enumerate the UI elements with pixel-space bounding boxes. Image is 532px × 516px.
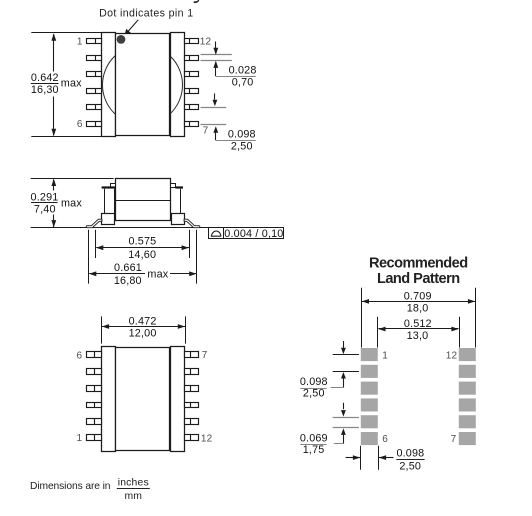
svg-text:6: 6 bbox=[77, 350, 83, 361]
dimension 0.709/18,0 (outer span) bbox=[362, 288, 476, 348]
bottom-view left pin row 6 bbox=[87, 435, 102, 441]
svg-text:mm: mm bbox=[124, 491, 142, 502]
side-view right foot bbox=[172, 214, 185, 225]
side-view right gull-wing lead bbox=[184, 219, 200, 228]
svg-text:6: 6 bbox=[77, 119, 83, 130]
bottom-view left pin row 3 bbox=[87, 386, 102, 392]
bottom-view right pin row 1 bbox=[185, 352, 199, 358]
dimension 0.291/7,40 max (height) bbox=[31, 179, 83, 228]
flatness callout frame bbox=[209, 228, 284, 241]
svg-text:2,50: 2,50 bbox=[399, 461, 421, 473]
svg-text:0,70: 0,70 bbox=[232, 76, 254, 88]
dimension 0.098/2,50 (pad pitch, left) bbox=[300, 341, 359, 400]
land pattern pad labels bbox=[382, 350, 457, 445]
top-view extension line (bottom) bbox=[31, 136, 101, 138]
side-view left post bbox=[105, 189, 115, 214]
top-view left pin row 1 bbox=[87, 39, 102, 44]
bottom-view left pin row 4 bbox=[87, 403, 102, 408]
top-view extension line (top) bbox=[31, 32, 101, 34]
dimension 0.098/2,50 (pin pitch) bbox=[201, 94, 256, 153]
svg-text:13,0: 13,0 bbox=[407, 330, 429, 342]
bottom-view pin labels bbox=[77, 350, 213, 445]
svg-text:12,00: 12,00 bbox=[129, 328, 157, 340]
pin 1 indicator dot bbox=[117, 35, 126, 44]
svg-text:1: 1 bbox=[77, 433, 83, 444]
svg-text:0.028: 0.028 bbox=[229, 64, 257, 76]
svg-text:0.575: 0.575 bbox=[128, 236, 156, 248]
bottom-view right pin row 6 bbox=[185, 435, 199, 441]
bottom-view left pin row 5 bbox=[87, 419, 102, 425]
svg-text:Dimensions are in: Dimensions are in bbox=[30, 481, 111, 492]
bottom-view body bbox=[116, 348, 170, 451]
dimension 0.642/16,30 max (vertical) bbox=[31, 33, 82, 136]
svg-text:7: 7 bbox=[203, 125, 209, 136]
top-view right pin row 2 bbox=[185, 56, 199, 61]
core circle bbox=[103, 45, 183, 125]
bottom-view left flange bbox=[102, 347, 116, 452]
svg-text:0.291: 0.291 bbox=[31, 192, 59, 204]
top-view left pin row 4 bbox=[87, 89, 102, 94]
svg-text:1,75: 1,75 bbox=[303, 444, 325, 456]
top-view body bbox=[116, 34, 170, 136]
bottom-view right pin row 2 bbox=[185, 369, 199, 375]
bottom-view right pin row 4 bbox=[185, 403, 199, 408]
top-view left flange bbox=[102, 33, 116, 137]
top-view right flange bbox=[171, 33, 185, 137]
top-view right pin row 4 bbox=[185, 89, 199, 94]
svg-text:12: 12 bbox=[200, 36, 212, 47]
side-view left cap bar bbox=[102, 186, 116, 188]
svg-text:14,60: 14,60 bbox=[128, 249, 156, 261]
svg-text:7,40: 7,40 bbox=[34, 203, 56, 215]
side-view right post bbox=[171, 189, 181, 214]
dimension 0.098/2,50 (pad width, bottom) bbox=[346, 446, 425, 473]
dimension 0.512/13,0 (inner span) bbox=[378, 317, 460, 348]
svg-text:16,80: 16,80 bbox=[114, 275, 142, 287]
note: Dimensions are in inches/mm bbox=[30, 478, 150, 502]
side-view left foot bbox=[102, 214, 115, 225]
land pattern right pads bbox=[459, 348, 476, 445]
bottom-view right pin row 3 bbox=[185, 386, 199, 392]
svg-text:12: 12 bbox=[201, 434, 213, 445]
top-view right pin row 6 bbox=[185, 122, 199, 127]
svg-text:12: 12 bbox=[446, 351, 458, 362]
svg-text:max: max bbox=[147, 269, 168, 281]
side-view right step bbox=[171, 184, 176, 188]
dimension 0.069/1,75 (pad height, left) bbox=[300, 403, 359, 456]
top-view right pin row 5 bbox=[185, 105, 199, 110]
land pattern left pads bbox=[361, 348, 378, 445]
svg-text:16,30: 16,30 bbox=[31, 84, 59, 96]
top-view left pin row 5 bbox=[87, 105, 102, 110]
partial glyph of cropped title bbox=[194, 0, 200, 3]
svg-text:6: 6 bbox=[382, 434, 388, 445]
top-view left pin row 3 bbox=[87, 72, 102, 77]
svg-text:0.512: 0.512 bbox=[404, 318, 432, 330]
svg-text:1: 1 bbox=[382, 350, 388, 361]
svg-text:18,0: 18,0 bbox=[407, 302, 429, 314]
bottom-view right pin row 5 bbox=[185, 419, 199, 425]
svg-text:7: 7 bbox=[451, 434, 457, 445]
dimension 0.661/16,80 max (lead span) bbox=[89, 230, 197, 287]
bottom-view left pin row 2 bbox=[87, 369, 102, 375]
title: Recommended Land Pattern bbox=[369, 255, 468, 287]
top-view left pin row 2 bbox=[87, 56, 102, 61]
svg-text:0.069: 0.069 bbox=[300, 432, 328, 444]
bottom-view left pin row 1 bbox=[87, 352, 102, 358]
side-view left gull-wing lead bbox=[86, 219, 102, 228]
top-view pin labels bbox=[77, 36, 212, 136]
seating plane line bbox=[31, 227, 209, 229]
side-view body divider line bbox=[115, 200, 170, 202]
top-view left pin row 6 bbox=[87, 122, 102, 127]
svg-text:max: max bbox=[61, 198, 82, 210]
svg-text:2,50: 2,50 bbox=[303, 388, 325, 400]
top-view right pin row 3 bbox=[185, 72, 199, 77]
svg-text:1: 1 bbox=[77, 36, 83, 47]
svg-text:0.642: 0.642 bbox=[31, 72, 59, 84]
svg-text:inches: inches bbox=[118, 478, 149, 489]
svg-text:0.004 / 0,10: 0.004 / 0,10 bbox=[224, 228, 283, 240]
dimension 0.472/12,00 (body width) bbox=[102, 316, 186, 344]
bottom-view right flange bbox=[171, 347, 185, 452]
leader arrow to pin-1 dot bbox=[124, 20, 138, 36]
top-view right pin row 1 bbox=[185, 39, 199, 44]
svg-text:Land Pattern: Land Pattern bbox=[377, 271, 460, 287]
svg-text:0.661: 0.661 bbox=[114, 262, 142, 274]
dimension 0.575/14,60 (foot span inner) bbox=[96, 230, 190, 261]
svg-text:0.098: 0.098 bbox=[300, 376, 328, 388]
svg-text:7: 7 bbox=[202, 350, 208, 361]
side-view top extension line bbox=[31, 178, 114, 180]
side-view right cap bar bbox=[175, 186, 183, 188]
svg-text:0.709: 0.709 bbox=[404, 290, 432, 302]
svg-text:0.098: 0.098 bbox=[228, 128, 256, 140]
svg-text:max: max bbox=[61, 78, 82, 90]
svg-text:2,50: 2,50 bbox=[231, 140, 253, 152]
side-view body bbox=[116, 179, 171, 221]
dimension 0.028/0,70 (pin thickness) bbox=[201, 42, 257, 89]
svg-text:Recommended: Recommended bbox=[369, 255, 468, 271]
svg-text:Dot indicates pin 1: Dot indicates pin 1 bbox=[99, 7, 193, 19]
svg-text:0.472: 0.472 bbox=[129, 316, 157, 328]
side-view left step bbox=[111, 184, 116, 188]
svg-text:0.098: 0.098 bbox=[396, 448, 424, 460]
